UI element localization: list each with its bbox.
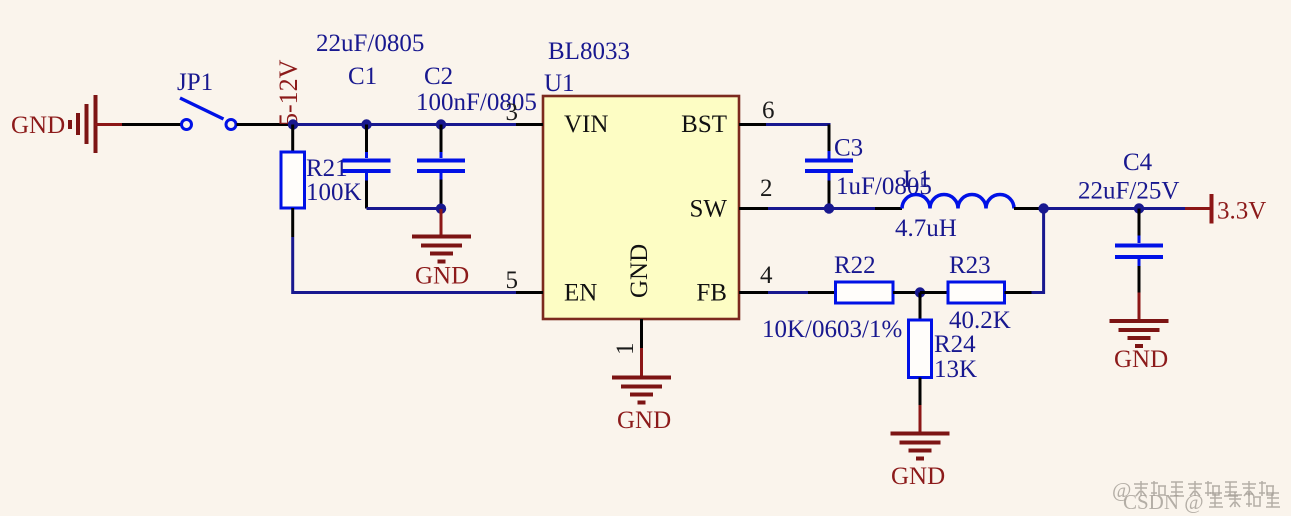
junction C2 bottom — [436, 204, 446, 214]
svg-text:4: 4 — [760, 262, 773, 289]
svg-text:GND: GND — [617, 407, 671, 434]
svg-text:3.3V: 3.3V — [1217, 198, 1266, 225]
svg-text:R23: R23 — [949, 252, 991, 279]
pin 4 (FB) — [739, 262, 773, 293]
svg-text:13K: 13K — [934, 356, 977, 383]
svg-text:VIN: VIN — [564, 111, 608, 138]
svg-text:R21: R21 — [306, 155, 348, 182]
svg-text:GND: GND — [415, 263, 469, 290]
svg-text:GND: GND — [891, 463, 945, 490]
svg-text:C1: C1 — [348, 63, 377, 90]
svg-text:R22: R22 — [834, 252, 876, 279]
wire R21 bottom to EN — [293, 237, 516, 293]
junction FB divider node — [915, 287, 925, 297]
pin 6 (BST) — [739, 97, 775, 125]
capacitor C3 — [805, 125, 853, 209]
svg-text:3: 3 — [506, 99, 519, 126]
svg-text:BL8033: BL8033 — [548, 38, 630, 65]
svg-text:10K/0603/1%: 10K/0603/1% — [762, 316, 902, 343]
svg-text:L1: L1 — [903, 166, 931, 193]
svg-text:R24: R24 — [934, 331, 976, 358]
svg-text:C4: C4 — [1123, 149, 1153, 176]
svg-text:U1: U1 — [544, 70, 575, 97]
svg-text:100nF/0805: 100nF/0805 — [416, 89, 537, 116]
resistor R22 — [808, 282, 920, 303]
svg-text:2: 2 — [760, 175, 773, 202]
power port GND (left earth symbol) — [11, 95, 122, 153]
power port GND under R24 — [891, 405, 950, 490]
pin 1 (GND) — [612, 319, 642, 355]
svg-text:C3: C3 — [834, 135, 863, 162]
junction node 5-12V — [288, 119, 298, 129]
wire FB pin to R22 — [768, 291, 809, 294]
resistor R21 — [281, 125, 305, 238]
svg-text:1: 1 — [612, 343, 639, 356]
watermark — [1112, 478, 1280, 514]
svg-text:SW: SW — [690, 196, 728, 223]
pin 5 (EN) — [506, 267, 544, 294]
wire C1 bottom to C2 bottom — [367, 207, 442, 210]
resistor R24 — [909, 293, 932, 406]
svg-text:CSDN @: CSDN @ — [1123, 490, 1204, 514]
junction C4 top — [1134, 203, 1144, 213]
wire VIN rail — [293, 123, 516, 126]
capacitor C2 — [417, 125, 465, 206]
wire JP1 to node 5-12V — [237, 123, 292, 126]
wire output node down to R23 — [1032, 209, 1044, 293]
svg-text:4.7uH: 4.7uH — [895, 215, 957, 242]
svg-text:6: 6 — [762, 97, 775, 124]
wire C4 node to 3.3V — [1139, 207, 1186, 210]
svg-text:GND: GND — [11, 112, 65, 139]
wire SW pin to node — [768, 207, 829, 210]
power port GND under U1 pin 1 — [612, 348, 671, 434]
inductor L1 — [875, 195, 1041, 209]
svg-text:EN: EN — [564, 280, 597, 307]
IC U1 BL8033 body — [543, 96, 739, 319]
junction C2 top — [436, 119, 446, 129]
junction L1 output node — [1038, 203, 1048, 213]
svg-text:C2: C2 — [424, 63, 453, 90]
pin 3 (VIN) — [506, 99, 544, 126]
switch JP1 — [180, 98, 236, 130]
power port 3.3V — [1185, 194, 1266, 225]
svg-text:22uF/25V: 22uF/25V — [1078, 178, 1179, 205]
svg-text:40.2K: 40.2K — [949, 307, 1011, 334]
junction SW node — [824, 203, 834, 213]
wire BST to C3 — [766, 123, 831, 126]
svg-text:BST: BST — [681, 111, 727, 138]
svg-text:FB: FB — [696, 280, 727, 307]
resistor R23 — [920, 282, 1032, 303]
svg-text:GND: GND — [626, 244, 653, 298]
power port GND under C4 — [1110, 293, 1169, 374]
svg-text:22uF/0805: 22uF/0805 — [316, 30, 424, 57]
capacitor C1 — [343, 125, 391, 209]
wire GND to JP1 — [122, 123, 181, 126]
svg-text:5: 5 — [506, 267, 519, 294]
svg-text:5-12V: 5-12V — [274, 59, 303, 126]
wire SW node to L1 — [829, 207, 875, 210]
junction C1 top — [361, 119, 371, 129]
pin 2 (SW) — [739, 175, 773, 209]
svg-text:GND: GND — [1114, 346, 1168, 373]
power port GND under C2 — [412, 209, 471, 290]
wire output node to C4 — [1044, 207, 1139, 210]
svg-text:JP1: JP1 — [177, 69, 213, 96]
capacitor C4 — [1115, 209, 1163, 293]
svg-text:100K: 100K — [306, 179, 362, 206]
